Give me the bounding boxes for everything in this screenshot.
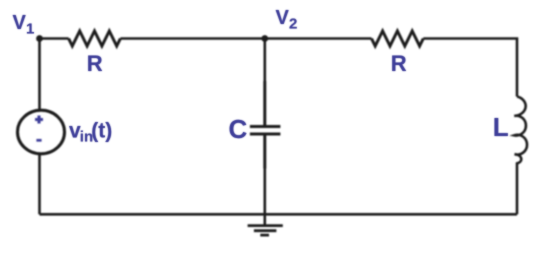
svg-text:R: R (391, 51, 407, 76)
source plus sign (35, 116, 43, 124)
svg-text:1: 1 (26, 21, 34, 38)
wire: inductor to bottom-right corner (516, 164, 519, 215)
resistor R1 (69, 31, 121, 46)
svg-text:L: L (493, 112, 509, 142)
resistor R2 (372, 31, 424, 46)
capacitor C bottom plate (250, 133, 281, 136)
wire: capacitor to bottom wire and ground (263, 169, 266, 225)
inductor L (514, 97, 527, 164)
svg-text:C: C (229, 114, 248, 144)
capacitor C bottom lead thick (263, 135, 266, 168)
svg-text:2: 2 (289, 16, 297, 33)
capacitor C top plate (250, 125, 281, 128)
svg-text:R: R (87, 51, 103, 76)
svg-text:V: V (276, 7, 290, 29)
voltage source U1 circle (18, 110, 65, 154)
wire: V2 node to resistor R2 (265, 37, 372, 40)
svg-text:(t): (t) (91, 120, 112, 143)
wire: R1 to V2 node (120, 37, 264, 40)
ground bar 1 (248, 224, 283, 227)
capacitor C top lead thick (263, 81, 266, 125)
wire bottom (40, 213, 518, 216)
wire: source to bottom-left corner (38, 154, 41, 215)
node V1 dot (36, 35, 43, 42)
wire: V1 node down to source (38, 39, 41, 111)
wire: V2 node down (capacitor top lead) (263, 39, 266, 82)
ground bar 2 (254, 229, 277, 232)
svg-text:V: V (13, 12, 27, 34)
node V2 dot (261, 35, 268, 42)
wire top: V1 node to resistor R1 (40, 37, 69, 40)
source minus sign (36, 139, 41, 142)
ground bar 3 (260, 234, 269, 237)
wire: R2 to top-right corner and down to inductor (423, 39, 517, 97)
